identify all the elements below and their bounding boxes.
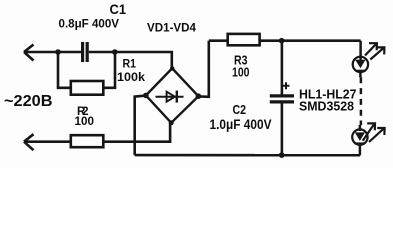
svg-text:R1: R1 [123, 57, 137, 71]
arrow input terminal 2 [24, 134, 34, 150]
svg-text:0.8μF 400V: 0.8μF 400V [59, 17, 120, 31]
LED HL27 [352, 125, 367, 155]
capacitor C1 plates [83, 42, 88, 62]
wire parallel branch left [58, 52, 70, 88]
wire dashed series LED string [360, 77, 363, 125]
node junction dot top wire left [55, 49, 61, 55]
node dot bridge bottom corner [169, 120, 174, 125]
node junction dot top wire right [112, 49, 118, 55]
svg-text:SMD3528: SMD3528 [299, 99, 354, 114]
svg-text:C1: C1 [110, 2, 127, 17]
svg-text:VD1-VD4: VD1-VD4 [147, 20, 196, 34]
wire bridge left corner to negative rail [135, 96, 146, 156]
svg-text:C2: C2 [233, 102, 247, 117]
LED HL1 emission arrows [365, 43, 384, 59]
node dot bridge top corner [170, 66, 175, 71]
capacitor C2 plates [270, 96, 294, 102]
wire top AC input left segment [24, 51, 81, 54]
svg-text:1.0μF 400V: 1.0μF 400V [210, 117, 272, 132]
wire negative bottom rail [135, 154, 361, 157]
node junction dot bottom rail C2 tap [279, 152, 285, 158]
wire bridge right corner up to positive rail [198, 41, 208, 97]
svg-text:100: 100 [75, 116, 95, 128]
arrow input terminal 1 [24, 45, 34, 61]
svg-text:~220В: ~220В [4, 93, 53, 110]
diode symbol inside bridge [156, 91, 184, 103]
wire parallel branch right [104, 52, 115, 88]
wire bottom AC input through R2 to bridge bottom corner [24, 123, 170, 142]
resistor R1 box [71, 81, 104, 95]
svg-text:100k: 100k [117, 70, 145, 84]
LED HL1 [353, 57, 368, 78]
wire positive top rail [209, 39, 361, 42]
bridge rectifier VD1-VD4 diamond [146, 68, 199, 123]
resistor R3 box [228, 34, 260, 45]
node junction dot top rail C2 tap [279, 38, 285, 44]
polarity plus sign of C2 [283, 82, 290, 89]
resistor R2 box [71, 135, 104, 147]
svg-text:100: 100 [232, 66, 250, 80]
LED HL27 emission arrows [363, 123, 385, 142]
wire top AC to bridge top corner [89, 52, 172, 68]
node dot bridge left corner [143, 93, 149, 99]
wire C2 branch vertical [281, 41, 284, 155]
wire positive rail down to LED HL1 [359, 41, 362, 60]
node dot bridge right corner [196, 93, 202, 99]
